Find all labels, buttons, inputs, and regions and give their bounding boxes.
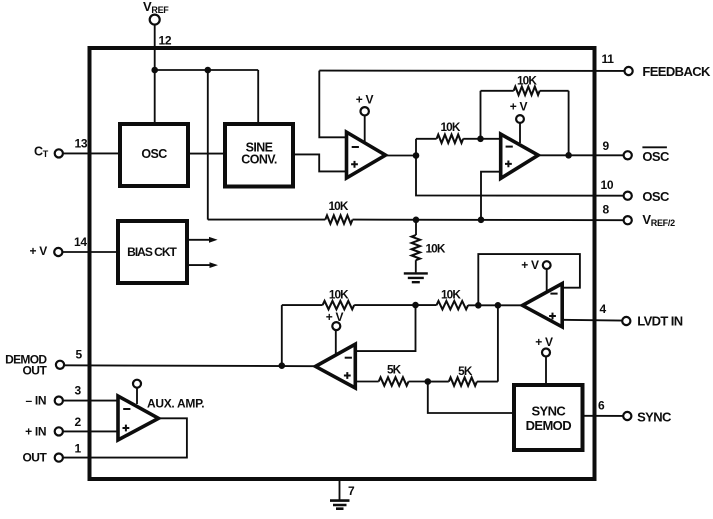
wire VREF divider drop	[207, 70, 209, 220]
junction A2 inverting node	[477, 136, 484, 143]
terminal FEEDBACK pin 11	[625, 67, 633, 75]
pin number 3	[75, 384, 82, 398]
wire feedback bus to pin 11	[319, 70, 624, 72]
power +V SYNC DEMOD	[535, 335, 553, 385]
svg-text:OUT: OUT	[22, 364, 47, 378]
pin number 10	[601, 178, 614, 192]
wire A2 minus input	[481, 138, 501, 140]
junction A4 output branch	[495, 302, 502, 309]
svg-text:5K: 5K	[458, 364, 473, 378]
svg-text:11: 11	[602, 52, 615, 66]
svg-text:+ V: + V	[535, 335, 553, 349]
svg-text:– IN: – IN	[25, 394, 46, 408]
svg-text:OUT: OUT	[22, 451, 47, 465]
wire ground pin 7	[339, 479, 341, 500]
wire A3 minus input	[355, 305, 415, 351]
arrow BIAS output 2	[187, 262, 218, 268]
pin number 4	[600, 302, 607, 316]
label LVDT IN	[637, 314, 683, 329]
terminal SYNC pin 6	[623, 412, 631, 420]
label +IN	[25, 424, 46, 438]
terminal LVDT IN pin 4	[622, 317, 630, 325]
junction DEMOD feedback node	[279, 362, 286, 369]
svg-text:1: 1	[75, 442, 82, 456]
label BIAS CKT	[127, 245, 177, 259]
wire A1 output	[386, 155, 417, 157]
label SYNC DEMOD	[526, 404, 572, 434]
terminal -IN pin 3	[55, 397, 63, 405]
resistor 10K A3 feedback	[282, 301, 416, 309]
terminal VREF pin 12	[150, 15, 160, 25]
pin number 12	[159, 34, 172, 48]
pin number 2	[75, 415, 82, 429]
svg-text:13: 13	[75, 136, 88, 150]
label -IN	[25, 394, 46, 408]
svg-text:SYNC: SYNC	[531, 404, 566, 419]
ground pin 7	[330, 501, 350, 509]
pin number 5	[76, 348, 83, 362]
terminal CT pin 13	[55, 149, 63, 157]
wire A2 feedback right leg	[568, 91, 570, 156]
svg-text:+ V: + V	[521, 258, 539, 272]
label OUT	[22, 451, 47, 465]
label FEEDBACK	[642, 64, 711, 79]
svg-text:CONV.: CONV.	[241, 153, 277, 167]
wire A2 plus input	[481, 172, 501, 220]
wire A1 output riser	[415, 139, 417, 156]
wire A1 minus feedback	[319, 71, 346, 138]
wire AUX output loop	[63, 418, 187, 457]
wire A1 output to pin 10	[416, 156, 624, 196]
label SYNC	[637, 410, 672, 425]
block SYNC DEMOD	[514, 385, 583, 450]
svg-text:+ V: + V	[356, 93, 374, 107]
block OSC	[120, 124, 188, 186]
pin number 9	[603, 139, 610, 153]
svg-text:+ V: + V	[30, 244, 48, 258]
wire VREF to SINE CONV	[257, 70, 259, 122]
svg-text:2: 2	[75, 415, 82, 429]
svg-text:10K: 10K	[441, 120, 461, 134]
label 5K right	[458, 364, 473, 378]
label AUX. AMP.	[147, 397, 204, 411]
junction VREF divider branch	[205, 67, 212, 74]
svg-text:12: 12	[159, 34, 172, 48]
svg-text:VREF/2: VREF/2	[642, 212, 675, 228]
terminal VREF/2 pin 8	[624, 216, 632, 224]
svg-text:10: 10	[601, 178, 614, 192]
svg-text:OSC: OSC	[141, 147, 167, 161]
op-amp A2	[501, 134, 539, 178]
junction divider node	[413, 217, 420, 224]
block BIAS CKT	[118, 221, 187, 283]
svg-text:14: 14	[74, 235, 87, 249]
wire +IN to AUX	[63, 430, 118, 432]
block SINE CONV	[225, 124, 293, 187]
junction A3 inverting node	[412, 302, 419, 309]
wire A2 feedback left leg	[480, 91, 482, 139]
label VREF	[143, 0, 169, 15]
svg-text:10K: 10K	[329, 199, 349, 213]
pin number 11	[602, 52, 615, 66]
resistor 10K divider ground	[412, 220, 420, 273]
svg-text:6: 6	[598, 398, 605, 412]
resistor 10K A2 feedback	[481, 87, 569, 95]
chip boundary	[90, 48, 595, 479]
junction A4 feedback node	[475, 302, 482, 309]
wire 5K node to SYNC DEMOD	[428, 382, 514, 413]
svg-text:4: 4	[600, 302, 607, 316]
power terminal AUX AMP	[133, 380, 141, 404]
label 5K left	[387, 363, 402, 377]
terminal OSC-bar pin 9	[624, 151, 632, 159]
svg-text:5: 5	[76, 348, 83, 362]
pin number 14	[74, 235, 87, 249]
svg-text:OSC: OSC	[642, 149, 670, 164]
wire A4 plus to pin 4	[562, 319, 622, 322]
wire A4 minus loop	[478, 254, 580, 305]
junction VREF node	[151, 67, 158, 74]
resistor 5K left	[355, 377, 428, 385]
terminal DEMOD OUT pin 5	[56, 361, 64, 369]
wire CT to OSC	[63, 152, 120, 154]
wire DEMOD node up	[281, 305, 283, 366]
resistor 5K right	[428, 377, 498, 385]
resistor 10K A1-A2	[416, 135, 481, 143]
label OSC pin 10	[642, 189, 670, 204]
op-amp AUX AMP	[118, 396, 159, 440]
svg-text:10K: 10K	[426, 242, 446, 256]
terminal +V pin 14	[54, 248, 62, 256]
terminal OSC pin 10	[624, 192, 632, 200]
svg-text:VREF: VREF	[143, 0, 169, 15]
pin number 1	[75, 442, 82, 456]
svg-text:+ V: + V	[510, 100, 528, 114]
label 10K divider ground	[426, 242, 446, 256]
op-amp A3	[316, 344, 356, 388]
wire 5K to A4 output	[497, 305, 499, 381]
op-amp A1	[347, 132, 386, 178]
pin number 6	[598, 398, 605, 412]
wire A2 output to pin 9	[538, 154, 623, 156]
label VREF/2	[642, 212, 675, 228]
label +V pin 14	[30, 244, 48, 258]
svg-text:10K: 10K	[329, 287, 349, 301]
label DEMOD OUT	[5, 353, 47, 378]
wire -IN to AUX	[63, 400, 118, 402]
svg-text:SYNC: SYNC	[637, 410, 672, 425]
svg-text:+ IN: + IN	[25, 424, 46, 438]
label OSC	[141, 147, 167, 161]
pin number 8	[603, 203, 610, 217]
label OSC-bar	[642, 147, 670, 164]
power +V A1	[356, 93, 374, 144]
label 10K A1-A2	[441, 120, 461, 134]
svg-text:3: 3	[75, 384, 82, 398]
svg-text:10K: 10K	[517, 74, 537, 88]
wire +V to BIAS CKT	[63, 251, 118, 253]
wire pin 12 VREF lead	[154, 24, 156, 70]
svg-text:BIAS CKT: BIAS CKT	[127, 245, 177, 259]
wire SINE CONV to A1 plus	[293, 154, 347, 171]
pin number 7	[348, 484, 355, 498]
resistor 10K from A4	[416, 301, 523, 309]
svg-text:AUX. AMP.: AUX. AMP.	[147, 397, 204, 411]
junction A2 output node	[565, 152, 572, 159]
svg-text:CT: CT	[34, 145, 49, 160]
junction A1 output node	[413, 152, 420, 159]
wire VREF bus	[155, 69, 259, 71]
resistor 10K divider top	[208, 215, 624, 223]
wire SYNC DEMOD to pin 6	[583, 415, 624, 417]
svg-text:FEEDBACK: FEEDBACK	[642, 64, 711, 79]
arrow BIAS output 1	[187, 237, 218, 243]
op-amp A4	[523, 284, 563, 327]
power +V A4	[521, 258, 550, 293]
ground divider	[404, 273, 428, 282]
svg-text:8: 8	[603, 203, 610, 217]
svg-text:5K: 5K	[387, 363, 402, 377]
wire OSC to SINE CONV	[188, 153, 225, 155]
svg-text:10K: 10K	[441, 287, 461, 301]
label 10K A2 feedback	[517, 74, 537, 88]
pin number 13	[75, 136, 88, 150]
label 10K A3 feedback	[329, 287, 349, 301]
svg-text:LVDT IN: LVDT IN	[637, 314, 683, 329]
label 10K from A4	[441, 287, 461, 301]
terminal OUT pin 1	[55, 454, 63, 462]
label SINE CONV	[241, 140, 277, 166]
svg-text:DEMOD: DEMOD	[526, 418, 572, 433]
label CT	[34, 145, 49, 160]
svg-text:7: 7	[348, 484, 355, 498]
label 10K divider top	[329, 199, 349, 213]
power +V A3	[326, 310, 344, 356]
svg-text:9: 9	[603, 139, 610, 153]
junction 5K node	[425, 378, 432, 385]
junction A2 plus node	[478, 217, 485, 224]
power +V A2	[510, 100, 528, 144]
terminal +IN pin 2	[55, 427, 63, 435]
wire DEMOD OUT row	[64, 364, 315, 367]
svg-text:+ V: + V	[326, 310, 344, 324]
svg-text:OSC: OSC	[642, 189, 670, 204]
wire VREF node to OSC	[154, 70, 156, 122]
